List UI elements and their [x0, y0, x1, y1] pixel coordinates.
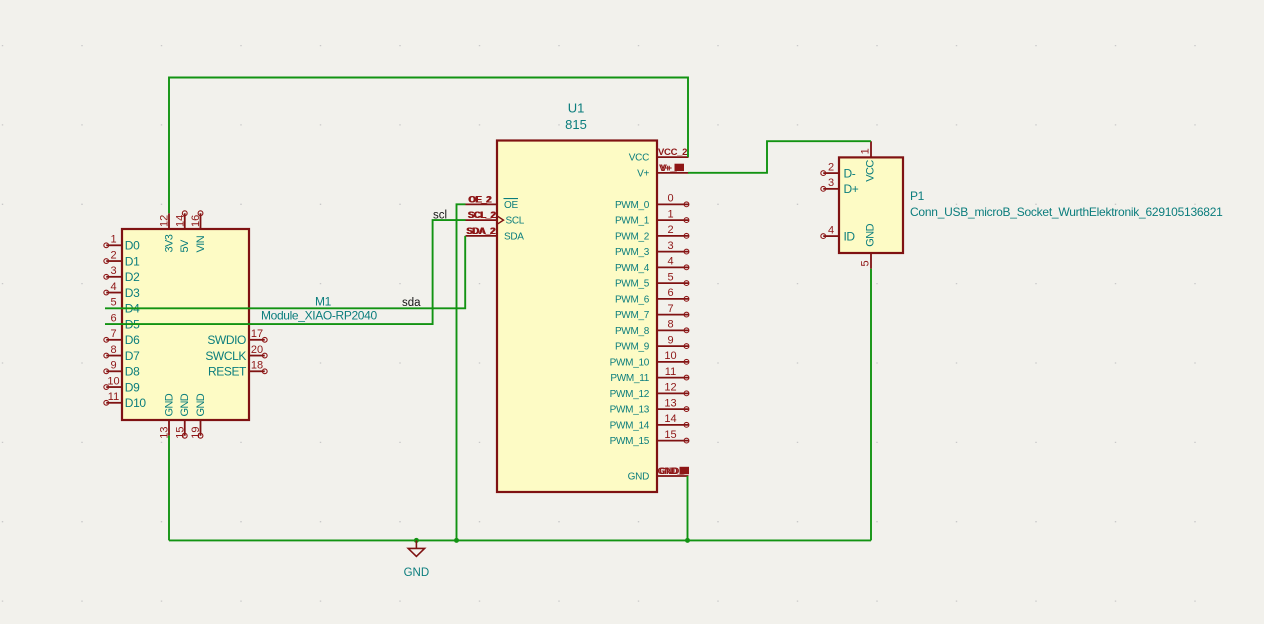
svg-text:scl: scl [433, 210, 447, 222]
svg-text:PWM_0: PWM_0 [615, 200, 650, 211]
svg-text:9: 9 [667, 334, 673, 346]
M1 pin 15 (GND) bottom [174, 393, 191, 439]
M1 pin 12 (3V3) top [159, 213, 176, 252]
svg-text:5V: 5V [179, 239, 191, 253]
module M1 Module_XIAO-RP2040 [122, 229, 249, 420]
U1 pin 4 (PWM_4) [615, 256, 689, 274]
M1 value Module_XIAO-RP2040 [261, 308, 377, 322]
wire U1 GND to bus [687, 476, 689, 540]
svg-text:RESET: RESET [208, 365, 247, 379]
svg-text:8: 8 [667, 319, 673, 331]
U1 pin 11 (PWM_11) [610, 366, 688, 384]
svg-text:D-: D- [844, 166, 856, 180]
P1 pin 4 (ID) [821, 224, 856, 243]
M1 pin 4 (D3) [104, 281, 140, 300]
svg-text:OE: OE [504, 200, 518, 211]
net label SCL_2 [468, 210, 497, 221]
net label OE_2 [468, 194, 492, 205]
svg-text:5: 5 [110, 297, 116, 309]
M1 reference designator [315, 295, 332, 309]
svg-text:U1: U1 [568, 101, 585, 116]
M1 pin 13 (GND) bottom [159, 393, 176, 439]
svg-text:6: 6 [110, 312, 116, 324]
M1 pin 19 (GND) bottom [190, 393, 207, 439]
U1 pin 13 (PWM_13) [610, 397, 689, 415]
svg-text:6: 6 [667, 287, 673, 299]
svg-text:4: 4 [110, 281, 116, 293]
M1 pin 16 (VIN) top [190, 211, 207, 253]
M1 pin 8 (D7) [104, 344, 140, 363]
net label VCC_2 [658, 147, 687, 158]
svg-text:D0: D0 [125, 239, 140, 253]
M1 pin 20 (SWCLK) right [205, 344, 267, 363]
svg-text:PWM_2: PWM_2 [615, 231, 650, 242]
svg-text:1: 1 [667, 208, 673, 220]
U1 pin 2 (PWM_2) [615, 224, 689, 242]
svg-text:2: 2 [828, 161, 834, 173]
ground symbol GND [404, 540, 430, 579]
svg-text:D+: D+ [844, 182, 859, 196]
svg-text:D9: D9 [125, 380, 140, 394]
svg-text:5: 5 [667, 271, 673, 283]
M1 pin 1 (D0) [104, 234, 140, 253]
svg-text:PWM_15: PWM_15 [610, 436, 650, 447]
svg-text:1: 1 [860, 148, 872, 154]
svg-text:2: 2 [110, 249, 116, 261]
U1 pin OE (active low) [466, 199, 519, 211]
svg-text:Conn_USB_microB_Socket_WurthEl: Conn_USB_microB_Socket_WurthElektronik_6… [910, 205, 1223, 219]
U1 pin 1 (PWM_1) [615, 208, 689, 226]
svg-text:VCC_2: VCC_2 [658, 147, 687, 158]
M1 pin 9 (D8) [104, 360, 140, 379]
M1 pin 10 (D9) [104, 375, 140, 394]
P1 pin 3 (D+) [821, 177, 859, 196]
M1 pin 5 (D4) [110, 297, 140, 316]
M1 pin 3 (D2) [104, 265, 140, 284]
local label scl [433, 210, 447, 222]
svg-text:13: 13 [664, 397, 676, 409]
svg-text:sda: sda [402, 297, 421, 309]
svg-text:V+: V+ [637, 168, 649, 179]
P1 pin 2 (D-) [821, 161, 856, 180]
connector P1 USB microB [839, 157, 903, 253]
svg-text:12: 12 [664, 382, 676, 394]
IC U1 815 PWM driver [497, 141, 657, 493]
svg-text:PWM_10: PWM_10 [610, 357, 650, 368]
wire sda net: M1 D4 to U1 SDA [105, 236, 465, 308]
svg-text:11: 11 [665, 366, 676, 378]
svg-text:PWM_13: PWM_13 [610, 405, 650, 416]
svg-text:GND: GND [865, 223, 877, 246]
U1 reference designator [568, 101, 585, 116]
svg-text:GND: GND [628, 472, 649, 483]
svg-text:PWM_1: PWM_1 [615, 216, 650, 227]
M1 pin 17 (SWDIO) right [207, 328, 267, 347]
svg-text:PWM_8: PWM_8 [615, 326, 650, 337]
svg-text:SDA_2: SDA_2 [467, 226, 496, 237]
P1 reference designator [910, 189, 925, 203]
svg-text:SWDIO: SWDIO [207, 333, 246, 347]
svg-text:PWM_12: PWM_12 [610, 389, 650, 400]
U1 pin 10 (PWM_10) [610, 350, 689, 368]
svg-text:18: 18 [251, 360, 263, 372]
svg-text:19: 19 [190, 426, 202, 438]
net label V+_18 (overlapped) [659, 163, 684, 174]
P1 pin 1 (VCC) top [860, 141, 877, 181]
wire V+ net: U1 V+ to P1 pin1 [688, 141, 871, 173]
svg-text:GND: GND [179, 393, 191, 416]
junction at GND symbol [414, 538, 419, 543]
M1 pin 14 (5V) top [174, 211, 191, 253]
U1 pin 14 (PWM_14) [610, 413, 689, 431]
svg-text:12: 12 [159, 215, 171, 227]
U1 pin 3 (PWM_3) [615, 240, 689, 258]
svg-text:10: 10 [107, 375, 119, 387]
svg-text:15: 15 [174, 426, 186, 438]
svg-text:PWM_4: PWM_4 [615, 263, 650, 274]
svg-text:SDA: SDA [504, 231, 524, 242]
svg-text:D2: D2 [125, 270, 140, 284]
svg-text:PWM_5: PWM_5 [615, 279, 650, 290]
svg-text:D7: D7 [125, 349, 140, 363]
U1 pin GND [628, 472, 689, 483]
svg-text:PWM_14: PWM_14 [610, 420, 650, 431]
svg-text:PWM_11: PWM_11 [610, 373, 649, 384]
M1 pin 2 (D1) [104, 249, 140, 268]
svg-text:VCC: VCC [629, 153, 649, 164]
U1 pin V+ [637, 168, 688, 179]
svg-text:Module_XIAO-RP2040: Module_XIAO-RP2040 [261, 308, 377, 322]
svg-text:D3: D3 [125, 286, 140, 300]
wire scl net: M1 D5 to U1 SCL [105, 220, 466, 324]
U1 pin VCC [629, 153, 689, 164]
wire OE to GND bus [457, 204, 466, 540]
svg-text:1: 1 [110, 234, 116, 246]
svg-text:17: 17 [251, 328, 263, 340]
U1 pin 12 (PWM_12) [610, 382, 689, 400]
svg-text:D8: D8 [125, 365, 140, 379]
svg-text:SWCLK: SWCLK [205, 349, 246, 363]
svg-text:20: 20 [251, 344, 263, 356]
svg-text:7: 7 [110, 328, 116, 340]
local label sda [402, 297, 421, 309]
svg-text:SCL_2: SCL_2 [469, 210, 497, 221]
U1 pin 9 (PWM_9) [615, 334, 689, 352]
svg-text:GND: GND [195, 393, 207, 416]
svg-text:11: 11 [108, 391, 119, 403]
svg-text:D10: D10 [125, 396, 147, 410]
svg-text:PWM_6: PWM_6 [615, 294, 650, 305]
M1 pin 18 (RESET) right [208, 360, 267, 379]
svg-text:GND: GND [163, 393, 175, 416]
svg-text:3: 3 [828, 177, 834, 189]
svg-text:7: 7 [667, 303, 673, 315]
svg-text:PWM_3: PWM_3 [615, 247, 650, 258]
P1 pin 5 (GND) bottom [860, 223, 877, 268]
svg-text:OE_2: OE_2 [469, 194, 492, 205]
net label GND_19 (overlapped) [658, 466, 690, 477]
net label SDA_2 [466, 226, 496, 237]
junction at OE riser [454, 538, 459, 543]
wire P1 pin5 to bus [870, 269, 872, 541]
U1 pin 8 (PWM_8) [615, 319, 689, 337]
svg-text:VCC: VCC [865, 160, 877, 182]
svg-text:14: 14 [664, 413, 676, 425]
svg-text:3V3: 3V3 [163, 234, 175, 252]
U1 pin 7 (PWM_7) [615, 303, 689, 321]
svg-text:2: 2 [667, 224, 673, 236]
M1 pin 7 (D6) [104, 328, 140, 347]
svg-text:4: 4 [828, 224, 834, 236]
svg-text:M1: M1 [315, 295, 332, 309]
svg-text:PWM_7: PWM_7 [615, 310, 650, 321]
svg-text:16: 16 [190, 215, 202, 227]
svg-text:3: 3 [110, 265, 116, 277]
U1 pin SDA [466, 231, 525, 242]
svg-text:SCL: SCL [506, 216, 525, 227]
svg-text:815: 815 [565, 117, 587, 132]
svg-text:D6: D6 [125, 333, 140, 347]
wire M1 GND pin13 to bus [168, 436, 170, 541]
U1 pin 6 (PWM_6) [615, 287, 689, 305]
svg-text:10: 10 [664, 350, 676, 362]
svg-text:P1: P1 [910, 189, 925, 203]
svg-text:PWM_9: PWM_9 [615, 342, 650, 353]
U1 pin SCL clock [466, 216, 525, 227]
U1 pin 5 (PWM_5) [615, 271, 689, 289]
svg-text:14: 14 [174, 215, 186, 227]
svg-text:4: 4 [667, 256, 673, 268]
svg-text:8: 8 [110, 344, 116, 356]
svg-text:3: 3 [667, 240, 673, 252]
svg-text:5: 5 [860, 260, 872, 266]
junction at U1 GND riser [685, 538, 690, 543]
svg-text:GND: GND [404, 567, 430, 579]
svg-text:0: 0 [667, 193, 673, 205]
U1 pin 0 (PWM_0) [615, 193, 689, 211]
M1 pin 6 (D5) [110, 312, 140, 331]
M1 pin 11 (D10) [104, 391, 146, 410]
U1 value 815 [565, 117, 587, 132]
svg-text:D1: D1 [125, 254, 140, 268]
svg-text:VIN: VIN [195, 235, 207, 252]
wire GND bus horizontal [169, 539, 871, 541]
wire VCC net: U1 VCC to M1 3V3 [169, 78, 688, 214]
P1 value Conn_USB_microB_Socket_WurthElektronik_629105136821 [910, 205, 1223, 219]
svg-text:9: 9 [110, 360, 116, 372]
U1 pin 15 (PWM_15) [610, 429, 689, 447]
svg-text:ID: ID [844, 229, 856, 243]
svg-text:15: 15 [664, 429, 676, 441]
